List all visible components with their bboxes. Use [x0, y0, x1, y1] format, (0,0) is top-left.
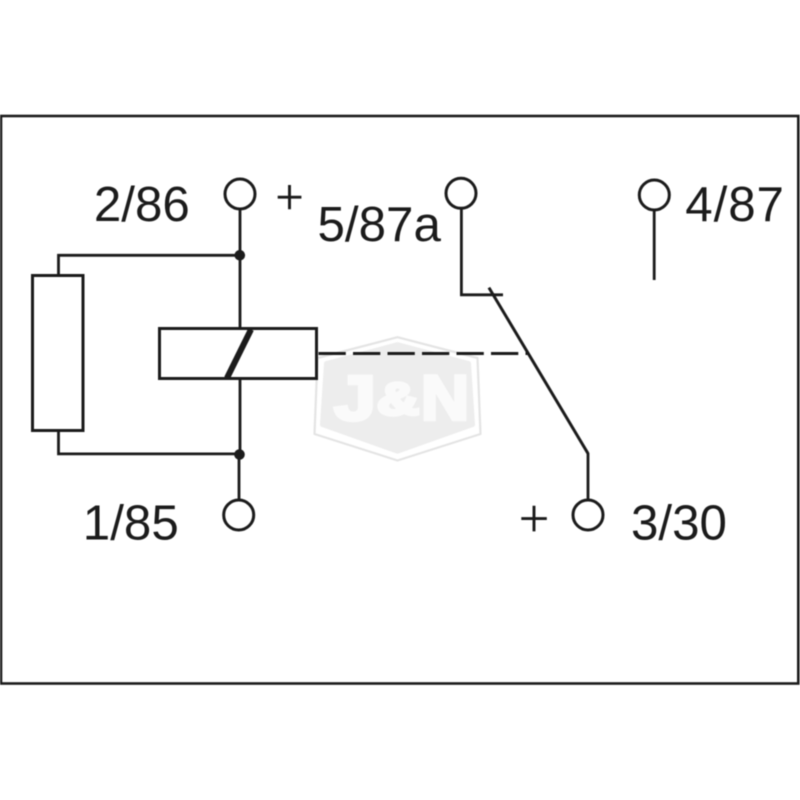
wire 2/86 down to coil [239, 210, 242, 329]
terminal 1/85 [224, 500, 254, 530]
plus sign near 2/86 [278, 185, 302, 209]
wire resistor top branch [59, 255, 241, 275]
svg-text:&: & [377, 374, 419, 425]
relay coil [160, 329, 317, 379]
watermark badge outline [315, 337, 481, 460]
terminal 4/87 [639, 180, 669, 210]
coil diagonal stripe [227, 330, 251, 379]
wire resistor bottom branch [59, 431, 241, 454]
svg-text:3/30: 3/30 [631, 496, 727, 551]
wire junction to 1/85 [238, 455, 241, 501]
junction dot top [235, 250, 246, 261]
switch lever [489, 288, 588, 454]
resistor [33, 276, 84, 431]
plus sign near 3/30 [521, 506, 547, 532]
wire 5/87a down and right [461, 209, 503, 295]
terminal 3/30 [573, 500, 603, 530]
svg-text:J: J [334, 364, 376, 434]
border frame [1, 116, 798, 684]
svg-text:2/86: 2/86 [94, 177, 190, 232]
svg-text:1/85: 1/85 [83, 496, 179, 551]
terminal 5/87a [446, 178, 476, 208]
watermark badge fill [323, 345, 473, 452]
junction dot bottom [234, 449, 245, 460]
svg-text:4/87: 4/87 [685, 177, 785, 232]
svg-text:5/87a: 5/87a [318, 197, 442, 252]
dashed actuating link [319, 352, 530, 355]
wire coil down to junction [239, 379, 242, 455]
wire lever to 3/30 [587, 453, 590, 500]
svg-text:N: N [421, 364, 469, 434]
wire 4/87 stub [653, 211, 656, 281]
terminal 2/86 [225, 179, 255, 209]
